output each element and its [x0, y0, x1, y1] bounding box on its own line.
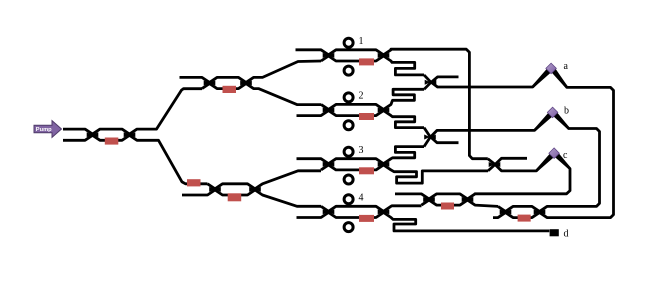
- svg-text:1: 1: [359, 36, 364, 47]
- svg-text:a: a: [564, 61, 569, 72]
- svg-text:c: c: [563, 150, 568, 161]
- svg-text:2: 2: [359, 91, 364, 102]
- svg-text:3: 3: [359, 145, 364, 156]
- svg-text:4: 4: [359, 193, 364, 204]
- svg-text:Pump: Pump: [36, 127, 52, 133]
- svg-text:b: b: [564, 106, 569, 117]
- svg-text:d: d: [564, 229, 569, 240]
